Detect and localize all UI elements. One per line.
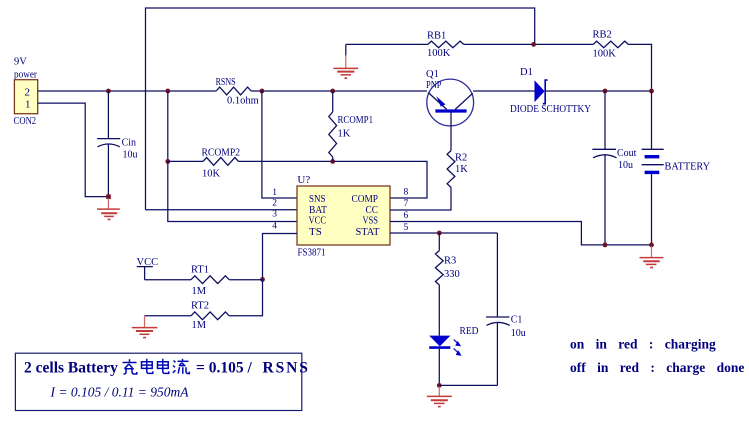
wire VIN riser to VCC pin3 (168, 161, 297, 221)
battery BATTERY (642, 91, 710, 245)
wire Q1 collector to D1 anode (473, 90, 534, 92)
svg-text:Cout: Cout (617, 148, 637, 159)
svg-text:RT1: RT1 (191, 265, 209, 276)
wire SNS riser pin1 (262, 91, 297, 198)
node junction Cout top (603, 89, 608, 94)
svg-text:6: 6 (404, 211, 409, 221)
wire STAT pin5 (390, 232, 497, 234)
svg-text:on in red : charging: on in red : charging (570, 337, 716, 352)
svg-text:VCC: VCC (309, 215, 327, 227)
resistor R2 (447, 151, 468, 188)
resistor RT1 (191, 265, 229, 298)
capacitor C1 (486, 233, 526, 385)
svg-text:CON2: CON2 (14, 116, 36, 127)
wire RB rail left segment (346, 43, 428, 45)
IC U? FS3871 (297, 174, 390, 259)
node junction VIN riser (165, 89, 170, 94)
svg-text:RED: RED (460, 326, 479, 337)
ground top (RB1 left) (334, 44, 359, 78)
node junction battery top (649, 89, 654, 94)
svg-text:= 0.105 /: = 0.105 / (196, 360, 252, 377)
ground below LED (427, 387, 452, 407)
power VCC symbol (137, 257, 159, 280)
svg-text:5: 5 (404, 223, 409, 233)
wire top BAT routing rail (146, 8, 535, 210)
node junction RCOMP2 left (165, 159, 170, 164)
node junction LED bottom (437, 383, 442, 388)
node junction Cin bottom / pin1 (106, 194, 111, 199)
svg-text:10K: 10K (202, 169, 221, 180)
svg-text:7: 7 (404, 199, 409, 209)
resistor RB1 (427, 31, 464, 59)
svg-text:1M: 1M (192, 320, 207, 331)
svg-text:1: 1 (272, 188, 277, 198)
svg-text:RSNS: RSNS (216, 77, 236, 88)
ground below battery (640, 246, 664, 268)
svg-text:SNS: SNS (309, 193, 326, 205)
svg-text:1: 1 (25, 99, 31, 111)
svg-text:8: 8 (404, 188, 409, 198)
resistor RSNS (216, 77, 259, 107)
svg-text:10u: 10u (123, 150, 138, 161)
svg-text:TS: TS (309, 226, 322, 238)
wire BAT pin2 to left riser (146, 209, 298, 211)
resistor RCOMP1 (329, 91, 373, 161)
wire R2 bottom to CC pin7 (390, 187, 451, 210)
svg-text:RB1: RB1 (427, 31, 446, 42)
svg-text:1K: 1K (338, 129, 351, 140)
svg-text:0.1ohm: 0.1ohm (227, 96, 259, 107)
svg-text:RB2: RB2 (593, 30, 612, 41)
svg-text:4: 4 (272, 222, 277, 232)
svg-text:1M: 1M (192, 286, 207, 297)
svg-text:D1: D1 (520, 67, 533, 78)
CJK char 电 (2) (158, 359, 169, 374)
CJK char 流 (173, 359, 190, 374)
resistor R3 (435, 233, 459, 285)
resistor RB2 (593, 30, 629, 60)
svg-text:RCOMP1: RCOMP1 (338, 115, 374, 126)
wire RCOMP2 right to COMP corner (239, 161, 428, 198)
node junction RT1/TS (260, 277, 265, 282)
svg-text:10u: 10u (618, 160, 633, 171)
svg-text:VSS: VSS (363, 215, 379, 227)
svg-text:10u: 10u (511, 328, 526, 339)
ground below Cin (97, 198, 120, 219)
svg-text:100K: 100K (427, 48, 451, 59)
capacitor Cout (592, 91, 636, 245)
transistor Q1 (PNP) (426, 69, 474, 151)
node junction Cout bottom (603, 243, 608, 248)
wire CON2 pin1 to ground (38, 103, 109, 197)
wire VCC to RT1 (145, 279, 191, 281)
svg-text:RCOMP2: RCOMP2 (202, 148, 241, 159)
svg-text:RT2: RT2 (191, 301, 209, 312)
wire RT1 right (229, 279, 262, 281)
wire TS pin4 (263, 234, 298, 280)
diode D1 schottky (510, 67, 591, 115)
wire RT2 left to ground (145, 315, 192, 317)
svg-text:FS3871: FS3871 (298, 247, 326, 259)
wire bottom C1 rail (439, 384, 497, 386)
svg-text:Cin: Cin (122, 138, 136, 149)
capacitor Cin (97, 91, 137, 197)
svg-text:3: 3 (272, 210, 277, 220)
wire VIN riser to RCOMP2 node (167, 91, 169, 161)
ground below RT2 left (132, 316, 158, 338)
LED RED (429, 326, 479, 356)
CJK char 电 (1) (142, 359, 153, 374)
svg-text:STAT: STAT (356, 226, 380, 238)
svg-text:330: 330 (444, 269, 460, 280)
svg-text:9V: 9V (14, 57, 27, 68)
svg-text:power: power (14, 70, 37, 81)
resistor RT2 (191, 301, 229, 332)
wire LED to ground (438, 349, 440, 386)
svg-text:1K: 1K (455, 164, 468, 175)
node junction RCOMP1 bottom (330, 159, 335, 164)
svg-text:DIODE SCHOTTKY: DIODE SCHOTTKY (510, 104, 591, 115)
wire main rail CON2 pin2 to RSNS (38, 90, 217, 92)
wire RB2 right down to output node (628, 44, 651, 91)
note box (15, 353, 309, 410)
svg-text:RSNS: RSNS (263, 360, 310, 377)
svg-text:R2: R2 (455, 153, 467, 164)
svg-text:2 cells Battery: 2 cells Battery (24, 360, 118, 377)
CJK char 充 (123, 359, 137, 374)
node junction RCOMP1 top (330, 89, 335, 94)
svg-text:100K: 100K (593, 49, 617, 60)
svg-text:BATTERY: BATTERY (665, 162, 711, 173)
wire VSS pin6 to bottom-right rail (390, 222, 652, 245)
node junction RB1/RB2/top-rail (531, 42, 536, 47)
svg-text:2: 2 (272, 199, 277, 209)
wire TS riser to RT2 (229, 279, 262, 315)
svg-text:U?: U? (297, 174, 310, 186)
svg-text:off in red : charge done: off in red : charge done (570, 360, 744, 375)
svg-text:I = 0.105 / 0.11 = 950mA: I = 0.105 / 0.11 = 950mA (50, 385, 190, 400)
wire D1 cathode to output node (545, 90, 651, 92)
node junction Cin top (106, 89, 111, 94)
node junction battery bottom / ground (649, 243, 654, 248)
svg-text:C1: C1 (511, 315, 523, 326)
wire R3 to LED (438, 285, 440, 336)
connector CON2 (14, 57, 38, 128)
svg-text:2: 2 (25, 87, 31, 99)
svg-text:Q1: Q1 (426, 69, 439, 80)
wire RB1 to junction (464, 43, 594, 45)
wire RCOMP2 leads (168, 160, 203, 162)
wire RSNS to Q1 emitter (251, 90, 427, 92)
resistor RCOMP2 (202, 148, 241, 180)
node junction R3 top (437, 231, 442, 236)
node junction SNS riser (260, 89, 265, 94)
svg-text:COMP: COMP (352, 193, 379, 205)
svg-text:R3: R3 (444, 256, 456, 267)
